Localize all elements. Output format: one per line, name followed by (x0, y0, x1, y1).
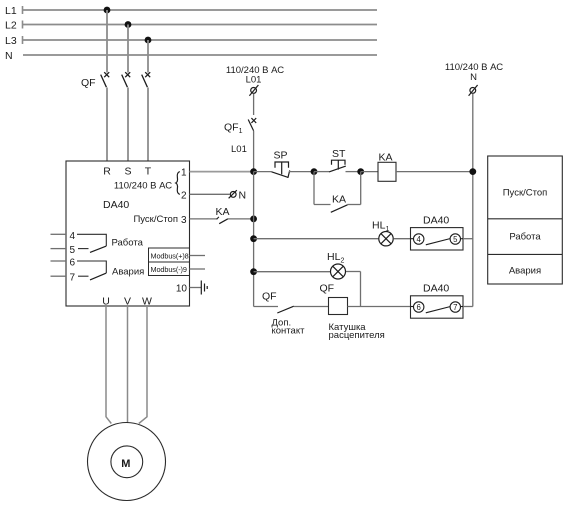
svg-text:KA: KA (216, 206, 230, 218)
wire HL2 right (346, 271, 361, 273)
terminal 9 wire (190, 268, 206, 270)
svg-text:SP: SP (274, 150, 288, 162)
wire node2 to ST (314, 171, 329, 173)
motor M outer circle (88, 423, 166, 501)
svg-text:1: 1 (181, 168, 187, 179)
wire QF pole3 to terminal T (147, 88, 149, 162)
svg-text:7: 7 (70, 273, 76, 284)
wire QF pole1 to terminal R (106, 88, 108, 162)
svg-text:4: 4 (417, 235, 422, 244)
node ST/KA (357, 168, 364, 175)
pushbutton ST (start, NO) (329, 160, 346, 172)
lamp HL1 (379, 232, 393, 246)
soft starter DA40 main box (66, 161, 190, 306)
svg-text:DA40: DA40 (423, 215, 449, 227)
wire V to motor (127, 306, 129, 423)
wire HL2 row left (254, 271, 330, 273)
svg-text:KA: KA (379, 152, 393, 164)
terminal stub 6 (51, 260, 67, 262)
pushbutton SP (stop, NC) (272, 162, 290, 178)
relay coil KA (378, 162, 396, 181)
svg-text:Авария: Авария (112, 267, 144, 278)
aux 4-5 blade (426, 239, 450, 245)
breaker QF1 (248, 118, 256, 131)
svg-text:U: U (102, 296, 110, 308)
source symbol N (terminal 2) (229, 190, 237, 198)
QF auxiliary contact blade (277, 306, 294, 313)
junction dot L1/R (104, 7, 111, 14)
wire node3 to KA coil (361, 171, 378, 173)
svg-text:М: М (121, 458, 130, 470)
svg-text:3: 3 (181, 215, 187, 226)
svg-text:L1: L1 (5, 5, 17, 17)
svg-text:N: N (239, 190, 247, 202)
svg-text:2: 2 (181, 191, 187, 202)
functional earth symbol (terminal 10) (201, 281, 207, 295)
bus N (5, 50, 377, 62)
svg-text:QF1: QF1 (224, 122, 243, 136)
terminal stub 5 (51, 248, 67, 250)
svg-text:N: N (470, 72, 477, 83)
svg-text:5: 5 (70, 245, 76, 256)
svg-text:Modbus(-)9: Modbus(-)9 (151, 265, 187, 274)
wire aux7 to N (463, 306, 473, 308)
svg-text:QF: QF (262, 291, 277, 303)
svg-text:KA: KA (332, 194, 346, 206)
wire W to motor (139, 306, 147, 424)
svg-text:DA40: DA40 (423, 283, 449, 295)
svg-text:Modbus(+)8: Modbus(+)8 (151, 252, 189, 261)
wire SP to node2 (289, 171, 314, 173)
terminal circle 5 (450, 234, 463, 244)
terminal circle 7 (450, 302, 463, 312)
wire KA contact to L01 vertical (228, 218, 254, 220)
wire KA coil to N (396, 171, 473, 173)
relay contact 6-7 (Авария) (77, 261, 106, 280)
L01 to aux contact (Доп. контакт) wire (254, 306, 278, 308)
wire N vertical (472, 94, 474, 307)
wire HL2 drop (360, 272, 362, 307)
wire ST to node3 (346, 171, 361, 173)
circuit breaker QF pole 3 (142, 72, 151, 87)
svg-text:HL2: HL2 (327, 251, 344, 265)
motor M inner circle (111, 446, 143, 478)
lamp HL2 (331, 264, 346, 279)
Modbus terminal box (149, 248, 190, 276)
svg-text:расцепителя: расцепителя (329, 330, 385, 341)
source symbol N (469, 85, 478, 96)
svg-text:QF: QF (320, 283, 335, 295)
svg-text:10: 10 (176, 284, 188, 295)
svg-text:Пуск/Стоп: Пуск/Стоп (503, 188, 548, 199)
KA holding contact wire right (348, 204, 361, 206)
QF trip coil box (Катушка расцепителя) (329, 298, 348, 315)
svg-text:HL1: HL1 (372, 220, 389, 234)
circuit breaker QF pole 2 (122, 72, 131, 87)
svg-text:N: N (5, 50, 13, 62)
wire HL1 to aux 4-5 (394, 238, 411, 240)
node N/KA (469, 168, 476, 175)
wire QF coil to aux 6-7 (348, 306, 411, 308)
wire terminal2 (190, 193, 230, 195)
svg-text:L2: L2 (5, 20, 17, 32)
svg-text:Работа: Работа (112, 238, 144, 249)
svg-text:R: R (103, 166, 111, 178)
svg-text:DA40: DA40 (103, 199, 129, 211)
terminal stub 4 (51, 233, 67, 235)
svg-text:7: 7 (453, 303, 457, 312)
DA40 aux contact 6-7 box (411, 296, 464, 318)
KA contact (run command) blade (217, 217, 219, 219)
KA holding contact blade (331, 205, 348, 213)
bus L1 (5, 5, 377, 17)
wire aux5 to N (463, 238, 473, 240)
wire U to motor (106, 306, 111, 424)
node L01/terminal1 (250, 168, 257, 175)
wire QF pole2 to terminal S (127, 88, 129, 162)
svg-text:L01: L01 (231, 144, 247, 155)
svg-text:Пуск/Стоп: Пуск/Стоп (133, 214, 178, 225)
source symbol L01 (249, 85, 258, 96)
terminal circle 4 (411, 234, 424, 244)
wire HL1 row left (254, 238, 379, 240)
svg-text:S: S (124, 166, 131, 178)
wire L1 to QF pole1 (106, 10, 108, 73)
terminal stub 7 (51, 275, 67, 277)
svg-text:110/240 В АС: 110/240 В АС (114, 181, 172, 192)
wire L01 to QF1 (253, 94, 255, 115)
aux 6-7 blade (426, 307, 450, 313)
bus L2 (5, 20, 377, 32)
svg-text:4: 4 (70, 231, 76, 242)
wire QF1 down (253, 131, 255, 172)
svg-text:контакт: контакт (272, 326, 306, 337)
svg-text:V: V (124, 296, 131, 308)
KA holding contact branch: left drop (313, 172, 315, 205)
legend box (488, 156, 563, 284)
svg-text:5: 5 (453, 235, 458, 244)
terminal 8 wire (190, 255, 206, 257)
node L01/HL2 (250, 268, 257, 275)
svg-text:6: 6 (70, 258, 76, 269)
L01 vertical down (253, 172, 255, 307)
wire L2 to QF pole2 (127, 25, 129, 73)
KA holding contact right rise (360, 172, 362, 205)
wire node to SP (254, 171, 272, 173)
svg-text:L01: L01 (246, 75, 262, 86)
junction dot L2/S (125, 21, 132, 28)
svg-text:QF: QF (81, 77, 96, 89)
svg-text:W: W (142, 296, 152, 308)
svg-text:Авария: Авария (509, 266, 541, 277)
svg-text:T: T (145, 166, 152, 178)
svg-text:Работа: Работа (509, 232, 541, 243)
KA holding contact wire left (314, 204, 331, 206)
node L01/HL1 (250, 235, 257, 242)
DA40 aux contact 4-5 box (411, 228, 464, 250)
terminal circle 6 (411, 302, 424, 312)
wire terminal3 to KA contact (190, 218, 218, 220)
wire terminal1 to L01 node (190, 171, 254, 173)
bus L3 (5, 35, 377, 47)
relay contact 4-5 (Работа) (77, 234, 106, 252)
node L01/terminal3 (250, 216, 257, 223)
node SP/ST (311, 168, 318, 175)
wire aux contact to QF coil (294, 306, 329, 308)
junction dot L3/T (145, 37, 152, 44)
svg-text:ST: ST (332, 148, 346, 160)
svg-text:L3: L3 (5, 35, 17, 47)
brace for terminals 1-2 (176, 172, 180, 195)
circuit breaker QF pole 1 (101, 72, 110, 87)
wire L3 to QF pole3 (147, 40, 149, 73)
terminal 10 wire (190, 287, 202, 289)
svg-text:6: 6 (417, 303, 421, 312)
